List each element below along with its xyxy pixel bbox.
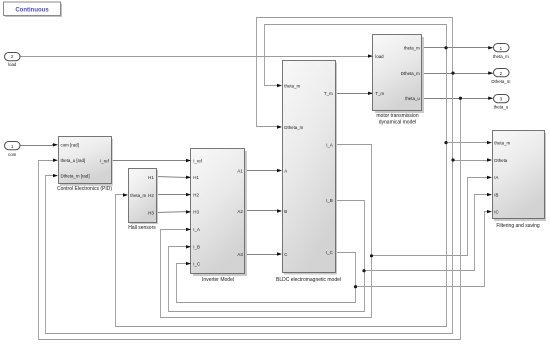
wire Dtheta_m motor to Out2 — [423, 73, 493, 75]
svg-text:B: B — [284, 209, 287, 214]
svg-text:H1: H1 — [148, 175, 154, 180]
outport 3 theta_u — [488, 95, 509, 110]
junction theta_m — [444, 46, 447, 49]
svg-text:theta_m: theta_m — [404, 46, 420, 51]
svg-text:theta_u: theta_u — [494, 104, 509, 109]
junction theta_u — [459, 97, 462, 100]
svg-text:T_m: T_m — [375, 91, 384, 96]
svg-text:I_B: I_B — [326, 198, 333, 203]
svg-text:com [rad]: com [rad] — [61, 143, 79, 148]
svg-text:C: C — [284, 252, 287, 257]
svg-text:Dtheta: Dtheta — [494, 158, 507, 163]
svg-text:Dtheta_m: Dtheta_m — [491, 79, 510, 84]
svg-text:Continuous: Continuous — [15, 7, 49, 13]
junction I_A — [370, 254, 373, 257]
wire com In1 to controller — [20, 145, 57, 146]
svg-text:H2: H2 — [193, 192, 199, 197]
svg-text:Hall sensors: Hall sensors — [128, 225, 156, 231]
svg-text:Inverter Model: Inverter Model — [202, 277, 234, 283]
wire I_A BLDC to Filtering IA — [335, 145, 491, 256]
svg-text:IA: IA — [494, 175, 498, 180]
svg-text:I_B: I_B — [193, 245, 200, 250]
wire A2 to B — [245, 210, 281, 212]
block Inverter Model — [186, 149, 247, 284]
svg-text:theta_u [rad]: theta_u [rad] — [61, 158, 86, 163]
wire I_B feedback bottom to inverter — [169, 247, 365, 312]
wire I_C feedback bottom to inverter — [177, 264, 356, 303]
svg-text:A2: A2 — [237, 209, 243, 214]
wire theta_u motor to Out3 — [423, 98, 493, 100]
svg-text:Control Electronics (PID): Control Electronics (PID) — [57, 186, 112, 192]
svg-text:A3: A3 — [237, 252, 243, 257]
svg-text:IC: IC — [494, 209, 498, 214]
svg-text:com: com — [8, 152, 17, 157]
wire theta_m feedback bottom rail to Hall — [116, 143, 447, 327]
powergui Continuous block — [4, 2, 63, 17]
svg-text:A1: A1 — [237, 168, 243, 173]
svg-text:load: load — [375, 54, 384, 59]
outport 2 Dtheta_m — [488, 69, 511, 85]
wire Dtheta_m feedback top rail to BLDC — [257, 18, 453, 127]
wire I_B BLDC to Filtering IB — [335, 195, 491, 271]
wire T_m BLDC to motor — [335, 93, 373, 95]
svg-text:I_A: I_A — [326, 142, 333, 147]
svg-text:Dtheta_m [rad]: Dtheta_m [rad] — [61, 173, 90, 178]
block Hall sensors — [123, 169, 158, 232]
svg-text:theta_m: theta_m — [494, 140, 510, 145]
wire A1 to A — [245, 170, 281, 172]
wire H2 — [157, 194, 191, 196]
junction theta_m Filtering — [444, 141, 447, 144]
wire H1 — [157, 177, 191, 178]
svg-text:H3: H3 — [148, 210, 154, 215]
svg-text:load: load — [8, 62, 17, 67]
wire Dtheta_m feedback down to Filtering — [453, 74, 491, 161]
svg-text:Dtheta_m: Dtheta_m — [401, 71, 420, 76]
junction I_C — [354, 285, 357, 288]
block Control Electronics (PID) — [53, 137, 113, 193]
svg-text:I_ref: I_ref — [100, 158, 110, 163]
svg-text:H2: H2 — [148, 193, 154, 198]
outport 1 theta_m — [488, 44, 509, 59]
svg-text:I_C: I_C — [326, 250, 333, 255]
svg-text:I_C: I_C — [193, 261, 200, 266]
svg-text:theta_m: theta_m — [130, 193, 146, 198]
svg-text:T_m: T_m — [324, 91, 333, 96]
wire A3 to C — [245, 254, 281, 256]
svg-text:theta_m: theta_m — [284, 83, 300, 88]
block motor transmission dynamical model — [368, 35, 424, 126]
svg-text:Filtering and saving: Filtering and saving — [496, 223, 540, 229]
wire I_A feedback bottom to inverter — [161, 230, 372, 318]
svg-text:BLDC electromagnetic model: BLDC electromagnetic model — [276, 277, 341, 283]
wire H3 — [157, 212, 191, 213]
junction Dtheta_m — [451, 72, 454, 75]
inport 2 load — [5, 53, 21, 68]
svg-text:Dtheta_m: Dtheta_m — [284, 125, 303, 130]
wire theta_m feedback top rail to BLDC — [265, 25, 447, 86]
svg-text:H3: H3 — [193, 210, 199, 215]
junction Dtheta_m Filtering — [451, 158, 454, 161]
svg-text:A: A — [284, 168, 287, 173]
wire theta_m feedback down to Filtering — [447, 48, 491, 143]
wire I_C BLDC to Filtering IC — [335, 212, 491, 287]
wire theta_m motor to Out1 — [423, 47, 493, 49]
block Filtering and saving — [487, 131, 546, 230]
svg-text:theta_m: theta_m — [493, 54, 509, 59]
block BLDC electromagnetic model — [276, 61, 341, 284]
wire load In2 to motor — [20, 56, 369, 58]
wire I_ref controller to inverter — [111, 160, 191, 162]
svg-text:dynamical model: dynamical model — [379, 120, 417, 126]
svg-text:I_A: I_A — [193, 227, 200, 232]
wire theta_u feedback bottom rail to controller — [39, 99, 461, 340]
svg-text:I_ref: I_ref — [193, 158, 203, 163]
junction I_B — [362, 269, 365, 272]
svg-text:motor transmission: motor transmission — [376, 113, 418, 119]
inport 1 com — [5, 142, 21, 158]
svg-text:IB: IB — [494, 192, 498, 197]
wire Dtheta_m feedback bottom rail to controller — [46, 161, 453, 334]
svg-text:H1: H1 — [193, 175, 199, 180]
svg-text:theta_u: theta_u — [405, 96, 420, 101]
